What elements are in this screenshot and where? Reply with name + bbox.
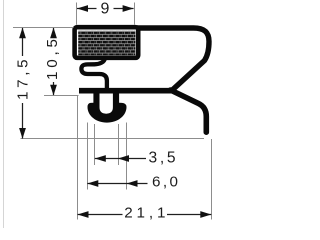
dim line 3,5 xyxy=(95,158,146,160)
dim line 9 left segment xyxy=(77,8,97,10)
arrow dim 3,5 left xyxy=(95,155,106,162)
arrow dim 6,0 right xyxy=(127,180,138,187)
svg-text:17,5: 17,5 xyxy=(15,59,32,100)
svg-text:9: 9 xyxy=(101,1,110,18)
extension line left for dim 21,1 xyxy=(77,95,79,220)
arrow dim 21,1 right xyxy=(200,211,211,218)
extension line right of dim 9 xyxy=(134,3,136,25)
dim line 6,0 xyxy=(87,183,147,185)
dim line 17,5 upper segment xyxy=(22,28,24,56)
extension line top for dims 17,5 and 10,5 xyxy=(13,27,74,29)
arrow dim 17,5 up xyxy=(19,28,26,39)
arrow dim 6,0 left xyxy=(87,180,98,187)
magnet pocket outline xyxy=(75,27,139,58)
top flange and upper-right curve xyxy=(137,28,209,90)
svg-text:10,5: 10,5 xyxy=(44,39,61,80)
horizontal base bar xyxy=(79,88,173,94)
arrow dim 10,5 down xyxy=(50,85,57,96)
S-shaped hinge bellows xyxy=(81,59,107,90)
svg-text:21,1: 21,1 xyxy=(124,204,165,221)
dim line 21,1 right segment xyxy=(167,214,211,216)
extension line stem left for dim 3,5 xyxy=(94,124,96,165)
arrow dim 21,1 left xyxy=(78,211,89,218)
dim line 10,5 upper segment xyxy=(53,28,55,37)
arrow dim 17,5 down xyxy=(19,128,26,139)
svg-text:6,0: 6,0 xyxy=(152,173,178,190)
arrow dim 3,5 right xyxy=(118,155,129,162)
extension line stem right for dim 3,5 xyxy=(118,124,120,165)
dim line 10,5 lower segment xyxy=(53,82,55,95)
extension line right for dim 21,1 xyxy=(211,139,213,220)
dim line 17,5 lower segment xyxy=(22,103,24,139)
arrow dim 9 left xyxy=(77,5,88,12)
scan edge artifact line xyxy=(3,0,5,228)
arrow dim 9 right xyxy=(123,5,134,12)
dim line 21,1 left segment xyxy=(78,214,123,216)
dim line 9 right segment xyxy=(114,8,134,10)
magnet hatch fill xyxy=(78,31,135,55)
extension line foot left outer for dim 6,0 xyxy=(87,123,89,190)
svg-text:3,5: 3,5 xyxy=(149,149,176,166)
extension line foot right outer for dim 6,0 xyxy=(126,123,128,190)
extension line left of dim 9 xyxy=(76,3,78,25)
push-in anchor foot xyxy=(88,92,127,123)
arrow dim 10,5 up xyxy=(50,28,57,39)
extension line bottom for dim 17,5 xyxy=(21,138,205,140)
extension tick bottom of dim 10,5 xyxy=(44,95,79,97)
lower-right leg xyxy=(171,90,207,132)
